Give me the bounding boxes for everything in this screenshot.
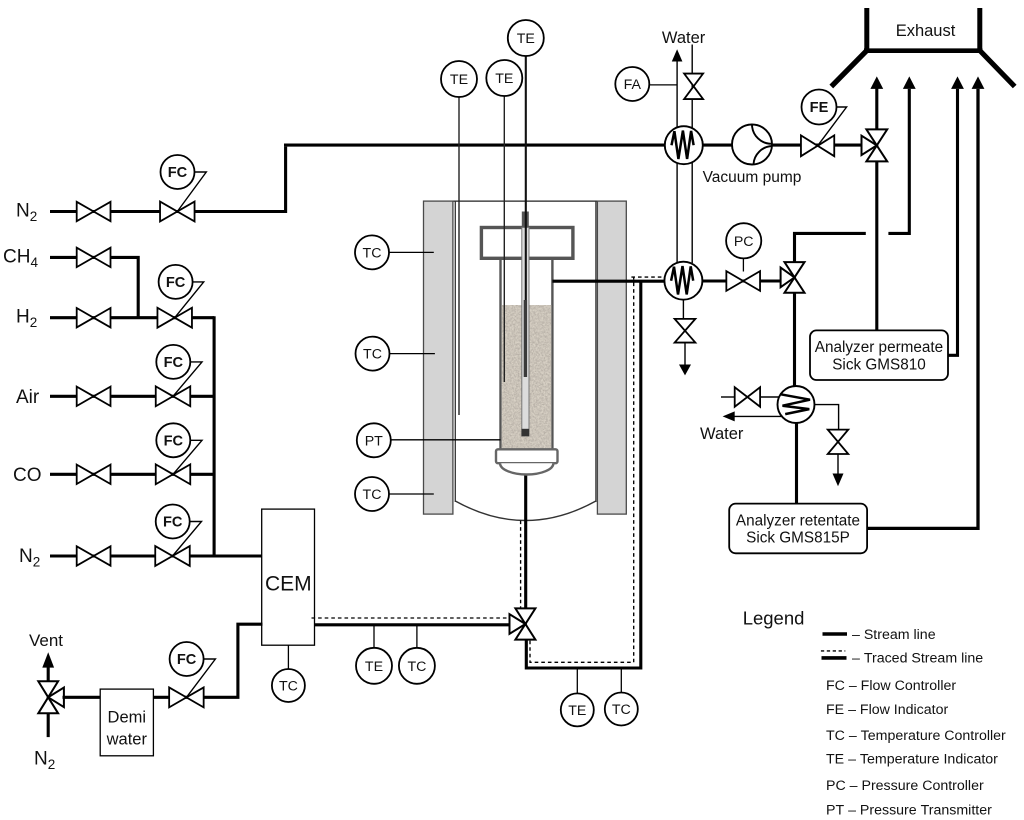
FC stem (N2 lower) — [173, 522, 202, 557]
retentate analyzer outlet to exhaust — [867, 89, 978, 529]
retentate line down to cooler — [793, 293, 796, 405]
svg-text:FC: FC — [166, 275, 186, 291]
gas manifold line — [213, 316, 216, 556]
control valve FCV1 (N2) — [160, 202, 195, 222]
PC circle — [726, 223, 761, 258]
demi water stream line to CEM — [153, 624, 262, 697]
svg-text:TC: TC — [279, 678, 298, 694]
thermocouple TE3 line — [525, 56, 527, 303]
TC stem — [416, 625, 418, 649]
drain valve below HX2 — [675, 319, 696, 343]
vessel right wall — [595, 201, 597, 502]
traced stream line CEM to mixing valve (dashed) — [312, 617, 512, 619]
FC circle (N2) — [161, 155, 195, 189]
vessel bottom arc — [455, 501, 596, 521]
N2 lower stream line to CEM — [50, 554, 262, 557]
heat exchanger HX1 — [665, 126, 703, 164]
pressure control valve — [726, 271, 760, 291]
svg-text:PT: PT — [365, 433, 383, 449]
traced loop line (dashed) — [530, 277, 634, 662]
exhaust hood left flare — [831, 50, 867, 87]
svg-text:FC: FC — [164, 355, 184, 371]
TE circle 1 (top) — [441, 61, 477, 97]
svg-text:Vent: Vent — [29, 631, 63, 650]
cooling water inlet stub — [721, 396, 735, 398]
valve V2 (CH4) — [77, 248, 111, 267]
svg-text:PC: PC — [734, 234, 754, 250]
reactor bottom outlet line — [524, 475, 527, 610]
svg-text:– Traced Stream line: – Traced Stream line — [852, 651, 983, 667]
TC circle below CEM — [272, 669, 305, 702]
svg-text:FC: FC — [177, 652, 197, 668]
water supply line — [691, 45, 693, 264]
svg-text:FA: FA — [624, 77, 642, 93]
thermowell tip — [522, 429, 530, 436]
svg-text:TE: TE — [365, 659, 383, 675]
N2 purge line — [47, 713, 50, 738]
Demi water box — [100, 689, 153, 756]
valve V1 (N2) — [77, 202, 111, 221]
TE stem — [373, 625, 375, 649]
furnace right insulation wall — [597, 201, 626, 514]
N2 stream line to top header — [50, 147, 286, 212]
TE circle (CEM line) — [356, 648, 392, 684]
exhaust hood bottom — [864, 48, 983, 53]
line HX3 to retentate analyzer — [795, 423, 798, 504]
TE stem (bottom) — [576, 668, 578, 694]
drain line below HX2 — [682, 300, 684, 320]
TC circle 2 (furnace) — [356, 337, 390, 371]
furnace top line — [424, 200, 627, 202]
svg-text:TC: TC — [363, 487, 382, 503]
TC1 stem — [389, 251, 434, 253]
FC stem (demi water) — [186, 659, 215, 697]
tube bottom fitting — [496, 449, 558, 463]
svg-text:TC: TC — [612, 702, 631, 718]
water supply valve — [684, 74, 703, 100]
FC circle (CO) — [156, 423, 190, 457]
valve V5 (CO) — [77, 465, 111, 484]
condensate arrow — [837, 454, 839, 474]
tube bottom dome — [500, 463, 553, 474]
three-way valve 2 (retentate split) — [785, 262, 805, 277]
svg-text:TE – Temperature Indicator: TE – Temperature Indicator — [826, 751, 998, 767]
TE circle 3 (top) — [508, 20, 544, 56]
TC2 stem — [390, 353, 435, 355]
legend traced stream line sample — [821, 650, 845, 652]
thermocouple rod in thermowell — [524, 300, 527, 377]
stream line CEM to mixing valve — [315, 623, 511, 626]
control valve FCV2 (H2) — [157, 308, 192, 328]
control valve FCV5 (N2 lower) — [155, 546, 190, 566]
TE circle 2 (top) — [486, 60, 522, 96]
TC circle (bottom) — [605, 693, 638, 726]
line valve to demi water — [63, 696, 101, 699]
FC circle (N2 lower) — [156, 505, 190, 539]
cooling water valve — [735, 387, 760, 407]
FC stem (H2) — [175, 282, 204, 318]
CH4 stream line — [50, 257, 138, 317]
control valve FCV6 (demi water) — [169, 687, 204, 707]
exhaust duct right wall — [977, 8, 982, 49]
traced outlet line (dashed) — [631, 276, 664, 278]
svg-text:FC – Flow Controller: FC – Flow Controller — [826, 678, 956, 694]
svg-text:– Stream line: – Stream line — [852, 627, 936, 643]
FA circle — [615, 67, 649, 101]
svg-text:Legend: Legend — [743, 608, 805, 629]
svg-text:Analyzer retentate: Analyzer retentate — [736, 512, 860, 529]
heat exchanger HX2 — [664, 262, 702, 300]
FC stem (N2) — [177, 172, 206, 212]
reactor permeate outlet line — [552, 280, 665, 283]
TC stem below CEM — [287, 645, 289, 670]
drain arrow below HX2 — [684, 343, 686, 365]
valve V6 (N2 lower) — [77, 546, 111, 565]
control valve FCV3 (Air) — [156, 386, 191, 406]
thermocouple TE2 line — [503, 96, 505, 382]
svg-text:FC: FC — [163, 515, 183, 531]
furnace left insulation wall — [424, 201, 453, 514]
Analyzer retentate box — [729, 504, 867, 554]
three-way valve 1 (to exhaust / permeate analyzer) — [866, 129, 887, 145]
mixing valve (3-way) — [515, 608, 535, 624]
valve V4 (Air) — [77, 387, 111, 406]
svg-text:FE: FE — [810, 100, 829, 116]
svg-text:Water: Water — [700, 425, 744, 443]
svg-text:water: water — [106, 730, 148, 748]
svg-text:CEM: CEM — [265, 573, 312, 596]
svg-text:TE: TE — [450, 72, 468, 88]
svg-text:Sick GMS810: Sick GMS810 — [832, 356, 926, 373]
svg-text:Analyzer permeate: Analyzer permeate — [815, 339, 943, 356]
cooling water outlet line — [734, 415, 782, 417]
permeate analyzer outlet to exhaust — [948, 89, 958, 355]
line HX2 to PC valve — [702, 279, 781, 282]
svg-text:FC: FC — [168, 165, 188, 181]
FC circle (demi water) — [170, 642, 204, 676]
svg-text:TE: TE — [517, 31, 535, 47]
PT circle — [357, 423, 391, 457]
thermowell above cap — [522, 212, 529, 228]
thermowell tube — [522, 228, 529, 437]
Analyzer permeate box — [810, 330, 948, 380]
PC stem — [742, 258, 744, 271]
vacuum pump — [732, 125, 772, 165]
TE circle (bottom) — [561, 693, 594, 726]
membrane tube left wall — [499, 258, 501, 449]
FE circle — [802, 90, 837, 125]
vent arrow — [42, 652, 54, 667]
svg-text:PT – Pressure Transmitter: PT – Pressure Transmitter — [826, 802, 992, 818]
legend stream line sample — [823, 632, 848, 636]
svg-text:TC: TC — [363, 347, 382, 363]
svg-text:PC – Pressure Controller: PC – Pressure Controller — [826, 778, 984, 794]
TC circle 1 (furnace) — [355, 235, 389, 269]
heat exchanger HX3 (retentate cooler) — [778, 386, 815, 423]
svg-text:FC: FC — [164, 433, 184, 449]
svg-text:TE: TE — [495, 71, 513, 87]
svg-text:TE: TE — [568, 703, 586, 719]
svg-text:FE – Flow Indicator: FE – Flow Indicator — [826, 702, 948, 718]
svg-text:Air: Air — [16, 387, 40, 408]
FC circle (H2) — [159, 265, 193, 299]
line valve to permeate analyzer — [875, 161, 878, 331]
line valve to exhaust — [875, 88, 878, 131]
exhaust hood right flare — [979, 50, 1014, 87]
traced loop line (solid) — [526, 281, 641, 668]
valve V3 (H2) — [77, 308, 111, 327]
svg-text:Vacuum pump: Vacuum pump — [703, 169, 802, 186]
condensate valve — [828, 430, 849, 454]
TC stem (bottom) — [620, 668, 622, 693]
control valve FCV4 (CO) — [156, 464, 191, 484]
FE control valve — [801, 135, 834, 156]
line valve to HX3 — [760, 396, 782, 398]
CO stream line — [50, 473, 214, 476]
vessel left wall — [454, 201, 456, 502]
traced line reactor bottom (dashed) — [520, 521, 522, 609]
TC circle 3 (furnace) — [355, 477, 389, 511]
svg-text:Demi: Demi — [108, 708, 147, 726]
FC stem (CO) — [173, 440, 202, 474]
FE stem — [818, 107, 847, 146]
svg-text:TC: TC — [363, 245, 382, 261]
TC circle (CEM line) — [399, 648, 435, 684]
svg-text:Sick GMS815P: Sick GMS815P — [746, 530, 850, 547]
svg-text:Exhaust: Exhaust — [896, 22, 956, 40]
PT stem — [391, 439, 501, 441]
water return line with arrow — [676, 61, 678, 263]
condensate line from HX3 — [814, 405, 839, 431]
FC circle (Air) — [156, 345, 190, 379]
svg-text:Water: Water — [662, 29, 706, 47]
TC3 stem — [389, 493, 434, 495]
retentate line to exhaust — [795, 233, 866, 262]
svg-text:TC – Temperature Controller: TC – Temperature Controller — [826, 728, 1006, 744]
catalyst bed (sand fill) — [502, 305, 551, 449]
exhaust duct left wall — [864, 8, 869, 49]
top header stream line to heat exchanger — [284, 144, 862, 147]
Air stream line — [50, 395, 214, 398]
svg-text:CO: CO — [13, 465, 42, 486]
H2 stream line — [50, 316, 214, 319]
FC stem (Air) — [173, 362, 202, 396]
membrane tube right wall — [551, 258, 553, 449]
three-way valve (vent/N2) — [38, 681, 58, 697]
CEM unit box — [262, 509, 315, 645]
thermocouple TE1 line — [458, 97, 460, 415]
FA stem — [649, 84, 677, 86]
tube top cap — [481, 228, 573, 259]
vent line — [47, 666, 50, 683]
svg-text:TC: TC — [407, 659, 426, 675]
